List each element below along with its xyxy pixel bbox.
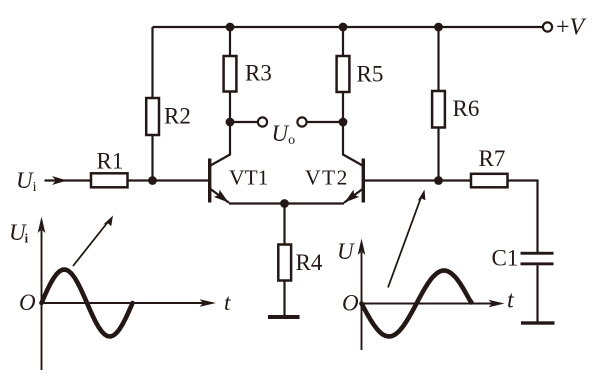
node dot R3 bottom / VT1 collector — [226, 118, 235, 127]
wire input with arrow — [45, 179, 92, 181]
transistor VT2 — [343, 122, 363, 203]
wire Uo left — [230, 121, 258, 123]
wire R7 to C1 corner — [508, 181, 538, 253]
svg-text:Ui: Ui — [16, 168, 37, 195]
input arrowhead — [52, 176, 67, 185]
wire R6 bottom — [437, 128, 439, 181]
right sine wave — [362, 271, 472, 337]
svg-text:+V: +V — [556, 15, 587, 41]
svg-text:R6: R6 — [453, 96, 480, 121]
svg-text:U: U — [337, 239, 355, 264]
wire R2 bottom — [151, 135, 153, 181]
wire Uo right — [307, 121, 343, 123]
wire VT1 collector up — [229, 122, 231, 156]
wire R6 top — [437, 27, 439, 91]
wire R3 top — [229, 27, 231, 56]
wire R4 top — [283, 204, 285, 245]
right waveform horizontal axis t — [362, 303, 493, 305]
svg-text:Ui: Ui — [9, 220, 29, 246]
right annotation arrowhead — [418, 190, 426, 202]
left waveform horizontal axis t — [42, 302, 204, 304]
right t-axis arrowhead — [489, 300, 505, 308]
wire R3 bottom — [229, 92, 231, 123]
Uo left terminal circle — [258, 117, 267, 126]
VT2 emitter arrowhead — [345, 190, 360, 203]
left t-axis arrowhead — [200, 299, 217, 307]
ground C1 — [521, 321, 555, 324]
resistor R4 — [278, 204, 291, 317]
node junction dot R2/R1 base — [148, 176, 157, 185]
wire emitter rail — [229, 202, 344, 204]
wire R5 top — [342, 27, 344, 56]
ground R4 — [268, 315, 300, 319]
resistor R1 — [91, 173, 128, 187]
left axis up arrowhead — [38, 217, 46, 234]
node dot R5 bottom / VT2 collector — [339, 118, 348, 127]
node dot R6 top rail — [434, 23, 443, 32]
left waveform vertical axis Ui — [41, 230, 43, 370]
svg-text:C1: C1 — [492, 246, 519, 271]
svg-text:O: O — [19, 290, 36, 315]
left annotation arrowhead — [103, 216, 113, 227]
right annotation arrow — [388, 198, 421, 288]
VT2 emitter diagonal — [344, 189, 363, 203]
resistor R2 — [146, 27, 159, 181]
wire node to R7 — [439, 179, 472, 181]
svg-text:R5: R5 — [357, 62, 384, 87]
node dot R6/R7/VT2 base — [434, 176, 443, 185]
wire top power rail — [153, 26, 543, 28]
svg-text:R1: R1 — [97, 149, 124, 174]
VT2 base bar — [362, 159, 365, 203]
svg-text:R3: R3 — [245, 61, 272, 86]
VT2 collector diagonal — [343, 155, 363, 166]
svg-text:VT2: VT2 — [305, 166, 349, 190]
transistor VT1 — [210, 122, 230, 203]
wire R2 top — [151, 27, 153, 98]
svg-text:O: O — [342, 291, 359, 316]
C1 bottom plate — [521, 262, 554, 265]
resistor R6 — [432, 27, 445, 181]
svg-text:VT1: VT1 — [229, 166, 268, 190]
resistor R5 — [337, 27, 350, 122]
svg-text:R2: R2 — [164, 104, 191, 129]
right axis up arrowhead — [358, 239, 366, 256]
C1 top plate — [521, 252, 554, 255]
Uo right terminal circle — [297, 117, 306, 126]
+V terminal circle — [543, 22, 552, 31]
VT1 emitter diagonal — [211, 189, 230, 203]
right waveform vertical axis U — [361, 252, 363, 350]
VT1 emitter arrowhead — [214, 190, 229, 203]
capacitor C1 — [521, 252, 554, 322]
node dot common emitters — [280, 199, 289, 208]
left sine wave — [42, 270, 133, 337]
wire R5 bottom — [342, 92, 344, 122]
VT1 base bar — [208, 159, 211, 203]
node dot R3 top rail — [226, 23, 235, 32]
svg-text:t: t — [507, 288, 515, 314]
wire VT2 collector up — [342, 122, 344, 156]
svg-text:R7: R7 — [479, 146, 506, 171]
wire R1 to VT1 base — [128, 179, 209, 181]
left annotation arrow — [73, 223, 108, 267]
wire C1 bottom — [536, 265, 538, 322]
resistor R7 — [471, 174, 508, 188]
wire R4 bottom — [283, 281, 285, 317]
resistor R3 — [224, 27, 237, 122]
svg-text:t: t — [224, 290, 231, 315]
svg-text:Uo: Uo — [272, 121, 296, 148]
svg-text:R4: R4 — [296, 250, 323, 275]
wire VT2 base to R6 node — [365, 179, 439, 181]
VT1 collector diagonal — [211, 155, 231, 166]
node dot R5 top rail — [339, 23, 348, 32]
